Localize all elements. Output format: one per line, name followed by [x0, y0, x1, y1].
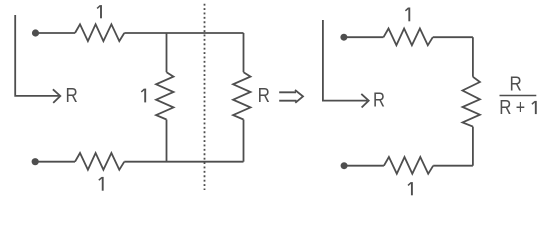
svg-text:R: R: [373, 88, 385, 111]
svg-text:R: R: [66, 83, 78, 106]
svg-text:+: +: [516, 96, 525, 118]
svg-text:R: R: [499, 96, 511, 119]
svg-text:R: R: [258, 83, 270, 106]
svg-text:R: R: [510, 72, 522, 95]
